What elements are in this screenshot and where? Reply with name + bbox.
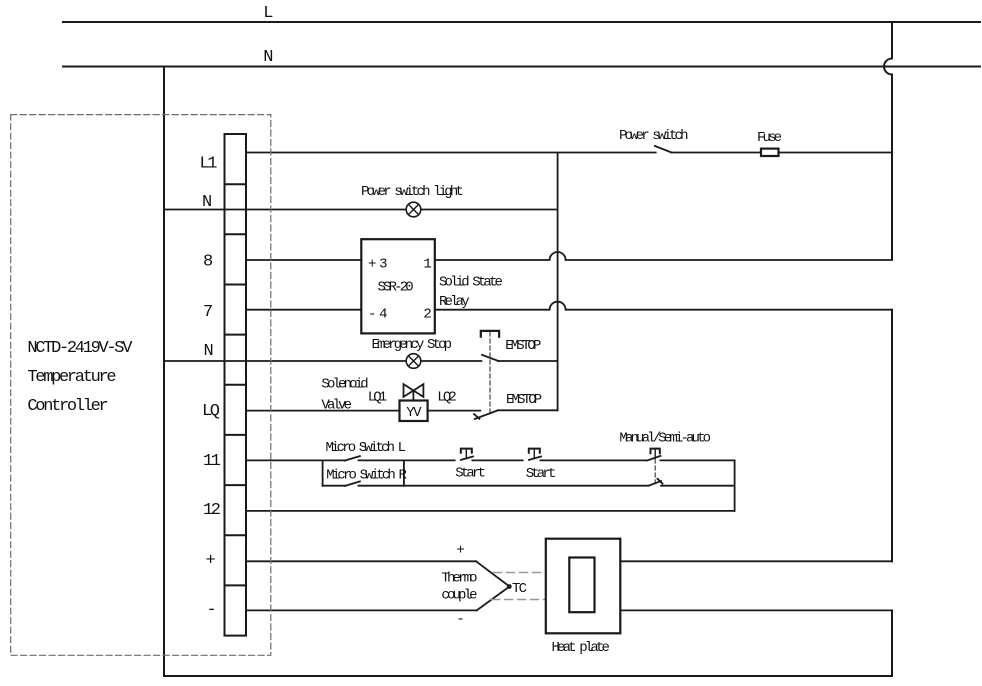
wire Start 1 stem — [465, 449, 467, 458]
wire loop right vertical — [734, 460, 736, 511]
wire terminal minus row — [246, 609, 477, 611]
svg-text:Heat plate: Heat plate — [552, 640, 610, 656]
wire micro R row — [323, 485, 346, 487]
lamp Emergency Stop light — [406, 354, 421, 369]
svg-text:YV: YV — [406, 405, 422, 421]
node Thermo couple label — [441, 570, 477, 603]
svg-text:Valve: Valve — [321, 398, 351, 414]
svg-text:L1: L1 — [200, 155, 218, 174]
fuse F1 — [761, 149, 779, 156]
wire lower parallel row to selector — [404, 485, 648, 487]
wire switched-L vertical bus x=557.6 — [557, 153, 559, 411]
svg-text:-: - — [207, 601, 215, 620]
svg-text:7: 7 — [203, 303, 212, 322]
svg-text:EMSTOP: EMSTOP — [505, 338, 541, 354]
svg-text:Solenoid: Solenoid — [321, 377, 368, 393]
button Start 2 head — [529, 449, 540, 453]
button head EMSTOP mushroom — [481, 331, 499, 337]
svg-text:LQ: LQ — [202, 402, 220, 421]
wire terminal 7 to SSR — [246, 309, 361, 311]
svg-text:N: N — [202, 193, 211, 212]
svg-text:couple: couple — [441, 587, 477, 603]
wire micro L to starts — [359, 459, 455, 461]
svg-text:Emergency Stop: Emergency Stop — [372, 337, 452, 353]
svg-text:Solid State: Solid State — [439, 274, 503, 290]
wire EMSTOP1 to bus — [498, 360, 558, 362]
heater inner element — [569, 558, 594, 613]
svg-text:TC: TC — [512, 581, 527, 597]
svg-text:EMSTOP: EMSTOP — [506, 392, 542, 408]
wire TC dashed lower — [492, 599, 546, 601]
svg-text:Start: Start — [455, 466, 484, 482]
switch tick selector contact 2 — [658, 479, 663, 484]
svg-text:Start: Start — [526, 466, 555, 482]
wire SSR pin2 to right drop, hop over bus — [435, 302, 892, 310]
lamp Power switch light — [406, 202, 421, 217]
wire selector1 to corner — [660, 459, 734, 461]
svg-text:Thermo: Thermo — [441, 570, 477, 586]
wire TC dashed upper — [494, 572, 546, 574]
wire selector2 to corner — [661, 485, 735, 487]
connector terminal strip — [225, 134, 247, 636]
valve bowtie symbol — [404, 384, 424, 397]
wire SSR pin1 to right drop, hop over bus — [435, 252, 892, 260]
wire start2 to selector — [540, 459, 646, 461]
wire N2 row to EMSTOP1 — [246, 360, 481, 362]
wire selector dashed stem — [654, 449, 656, 459]
svg-text:N: N — [204, 342, 213, 361]
wire right drop pin2 to heat plate top — [891, 310, 893, 562]
button Start 1 head — [461, 449, 472, 453]
wire valve stem — [412, 391, 414, 401]
node Solid State Relay label — [439, 274, 503, 309]
wire bottom N rail — [164, 675, 892, 677]
wire micro join vertical — [403, 460, 405, 485]
node Solenoid Valve label — [321, 377, 368, 414]
wire right L drop with hop over N rail — [884, 22, 892, 260]
svg-text:Power switch: Power switch — [619, 128, 688, 144]
wire power switch to fuse — [671, 152, 761, 154]
svg-text:Relay: Relay — [439, 294, 469, 310]
button selector head — [651, 449, 660, 454]
wire right drop to bottom rail — [891, 610, 893, 676]
svg-text:Temperature: Temperature — [27, 368, 116, 387]
svg-text:Manual/Semi-auto: Manual/Semi-auto — [619, 430, 710, 446]
svg-text:N: N — [263, 48, 272, 67]
wire micro switch branch vertical — [322, 460, 324, 485]
switch blade Micro Switch R — [345, 481, 360, 486]
svg-text:Micro Switch R: Micro Switch R — [326, 468, 407, 484]
wire EMSTOP2 to bus — [498, 409, 558, 411]
wire Start 2 stem — [533, 449, 535, 458]
svg-text:Power switch light: Power switch light — [361, 184, 462, 200]
svg-text:12: 12 — [203, 501, 220, 520]
op-amp U1: SSR-20 solid state relay box — [361, 239, 435, 333]
wire heat plate bottom to right — [620, 609, 892, 611]
wire N2 row left segment — [164, 360, 246, 362]
wire terminal 12 row — [246, 510, 735, 512]
wire LQ row to valve — [246, 410, 400, 412]
wire L1 row: strip to power switch — [246, 152, 656, 154]
wire L rail — [63, 21, 980, 23]
wire heat plate top to right drop — [620, 560, 892, 562]
svg-text:Fuse: Fuse — [757, 130, 782, 146]
node controller name label — [27, 339, 133, 416]
wire fuse to right drop — [779, 152, 893, 154]
svg-text:SSR-20: SSR-20 — [378, 280, 414, 296]
wire valve to EMSTOP2 — [428, 410, 481, 412]
svg-text:NCTD-2419V-SV: NCTD-2419V-SV — [27, 339, 133, 358]
svg-text:Controller: Controller — [27, 397, 107, 416]
wire N row lamp segment — [246, 209, 558, 211]
svg-text:Micro Switch L: Micro Switch L — [326, 440, 406, 456]
switch blade Start 1 — [461, 457, 473, 460]
switch blade Micro Switch L — [345, 456, 360, 461]
svg-text:11: 11 — [203, 452, 221, 471]
svg-text:LQ2: LQ2 — [437, 390, 456, 406]
heater Heat plate box — [546, 539, 621, 634]
wire thermocouple lower diagonal — [477, 587, 510, 611]
node TC junction dot — [507, 584, 512, 589]
switch blade: Power switch — [655, 146, 671, 152]
wire thermocouple upper diagonal — [476, 561, 509, 586]
controller NCTD-2419V-SV dashed enclosure — [11, 115, 271, 656]
switch blade Start 2 — [529, 457, 541, 460]
wire N rail — [63, 66, 980, 68]
svg-text:LQ1: LQ1 — [368, 390, 387, 406]
wire micro R to join — [359, 485, 404, 487]
wire left N vertical drop — [163, 67, 165, 677]
wire N row left segment — [164, 209, 246, 211]
wire terminal plus row — [246, 560, 476, 562]
switch blade EMSTOP contact 2 — [475, 410, 498, 419]
switch blade selector contact 1 — [647, 456, 660, 461]
wire EMSTOP linkage dashed stem — [489, 332, 491, 416]
wire terminal 11 row — [246, 459, 345, 461]
valve YV coil box — [400, 401, 428, 422]
switch blade selector contact 2 — [649, 481, 662, 486]
switch blade EMSTOP contact 1 — [482, 355, 498, 361]
wire start1 to start2 — [472, 459, 522, 461]
wire terminal 8 to SSR — [246, 259, 361, 261]
switch tick EMSTOP contact 2 — [474, 414, 480, 419]
svg-text:+ 3: + 3 — [368, 257, 387, 273]
svg-text:- 4: - 4 — [368, 306, 387, 322]
